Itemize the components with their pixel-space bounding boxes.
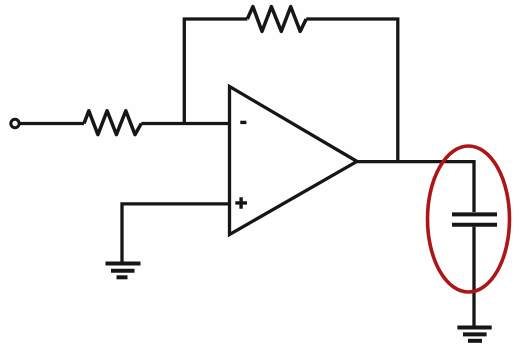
input terminal bbox=[11, 119, 19, 127]
wire: R2 to feedback right vertical down to output bbox=[306, 19, 398, 161]
op-amp U1 non-inverting input marker (+) bbox=[235, 197, 247, 209]
capacitor C1 bbox=[452, 214, 497, 224]
resistor R1 (input) bbox=[84, 111, 141, 135]
wire: non-inverting input to ground drop bbox=[122, 204, 230, 263]
resistor R2 (feedback) bbox=[247, 7, 306, 32]
wire: output to capacitor branch bbox=[357, 162, 474, 212]
wire: capacitor to ground bbox=[472, 227, 475, 327]
wire: feedback left vertical and top horizontal to R2 bbox=[184, 19, 247, 124]
op-amp U1 inverting input marker (-) bbox=[240, 121, 246, 124]
wire: R1 to inverting input bbox=[141, 122, 229, 125]
node: output feedback junction bbox=[396, 160, 399, 163]
annotation: red highlight ellipse around C1 bbox=[428, 146, 510, 292]
ground GND1 bbox=[106, 264, 141, 278]
node: feedback tap junction bbox=[183, 122, 186, 125]
wire: input terminal to R1 bbox=[20, 122, 85, 125]
op-amp U1 bbox=[230, 87, 358, 235]
ground GND2 bbox=[457, 328, 491, 341]
